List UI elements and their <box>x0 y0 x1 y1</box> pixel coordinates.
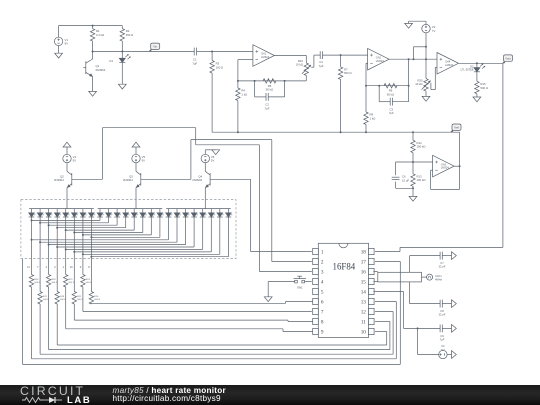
wire crystal bottom branch <box>409 282 411 304</box>
svg-text:12: 12 <box>361 309 367 315</box>
LED D25 segment diode <box>217 209 224 220</box>
LED D15 segment diode <box>131 209 138 220</box>
LED D22 segment diode <box>191 209 198 220</box>
svg-text:22 pF: 22 pF <box>439 265 446 269</box>
LED D3 segment diode <box>29 209 36 259</box>
resistor R1 2.2k <box>90 26 104 52</box>
wire anode bus digit3 <box>166 208 231 210</box>
transistor Q4 2N3904 with source V6 <box>192 154 250 199</box>
svg-text:10: 10 <box>70 265 73 269</box>
wire OA2 - input <box>366 63 368 85</box>
resistor R2 450 <box>120 26 133 52</box>
potentiometer R10 10k <box>296 59 311 81</box>
svg-text:OA1: OA1 <box>261 52 267 56</box>
svg-text:C8: C8 <box>440 309 444 313</box>
node D2 top <box>476 62 478 64</box>
svg-text:OA2: OA2 <box>376 55 382 59</box>
op-amp OA3 LM324 <box>433 155 455 177</box>
svg-text:500 Ω: 500 Ω <box>77 299 83 301</box>
svg-text:R17: R17 <box>43 296 48 298</box>
node OA3 out <box>459 165 461 167</box>
svg-text:CLK1: CLK1 <box>435 274 442 278</box>
resistor R8 1k <box>364 86 376 133</box>
wire crystal top branch <box>409 256 411 273</box>
resistor R5 50k <box>263 79 276 92</box>
svg-text:D2: D2 <box>470 64 474 68</box>
wire to OA2 + <box>341 54 368 56</box>
LED D13 segment diode <box>114 209 121 220</box>
wire segment row diode23 to column 7 <box>82 220 220 256</box>
svg-text:50 kΩ: 50 kΩ <box>266 88 273 92</box>
svg-text:5: 5 <box>321 289 324 295</box>
svg-text:LTL-307EE: LTL-307EE <box>461 68 474 72</box>
node R5 right <box>284 80 286 82</box>
wire segment row diode10 to column 2 <box>39 220 108 224</box>
voltage source V2 7V <box>422 21 436 78</box>
wire digit1 feed <box>66 200 68 209</box>
resistor R15 500 <box>475 81 488 97</box>
svg-text:R22: R22 <box>77 296 82 298</box>
svg-text:22 pF: 22 pF <box>439 313 446 317</box>
svg-text:10: 10 <box>361 329 367 335</box>
LED D17 segment diode <box>149 209 156 220</box>
wire feedback rail 2 <box>366 85 409 87</box>
svg-text:OA4: OA4 <box>445 60 451 64</box>
resistor R16 500 segment 1 <box>29 259 40 287</box>
CircuitLab logo <box>20 386 96 396</box>
svg-text:17: 17 <box>361 259 367 265</box>
capacitor C8 22pF <box>410 300 452 317</box>
wire anode bus digit1 <box>29 208 94 210</box>
LED D26 segment diode <box>226 209 233 220</box>
wire to OA3 + <box>413 161 433 163</box>
svg-text:2N3904: 2N3904 <box>54 178 64 182</box>
resistor R19 500 segment 4 <box>55 259 66 304</box>
svg-text:R19: R19 <box>60 296 65 298</box>
wire Vin row <box>93 51 195 53</box>
LED D8 segment diode <box>72 209 79 259</box>
LED D9 segment diode <box>80 209 87 259</box>
ground right of C9 <box>452 325 457 333</box>
svg-text:10 kΩ: 10 kΩ <box>296 63 303 67</box>
dashed display box <box>21 200 236 259</box>
wire OA2 output row <box>389 58 437 60</box>
LED D5 segment diode <box>46 209 53 259</box>
svg-text:R18: R18 <box>52 279 57 281</box>
svg-text:100 Ω: 100 Ω <box>216 66 224 70</box>
wire R13 to ground <box>412 188 414 196</box>
footer CircuitLab banner <box>0 385 540 405</box>
svg-text:SW1: SW1 <box>297 286 303 290</box>
crystal CLK1 4MHz body <box>373 272 442 282</box>
ground below D1 <box>118 84 126 89</box>
vcc arrow above V4 <box>63 142 71 154</box>
node R5 left <box>254 80 256 82</box>
resistor R4 1k <box>236 81 248 132</box>
resistor R24 500 segment 8 <box>89 259 100 304</box>
transistor Q1 2N3904 phototransistor <box>83 52 106 92</box>
display pin numbers <box>27 265 90 269</box>
ground at V6 <box>212 150 220 155</box>
svg-text:V3: V3 <box>441 344 445 348</box>
resistor R17 500 segment 2 <box>38 259 49 304</box>
wire feedback rail 1 <box>238 80 306 82</box>
svg-text:100 kΩ: 100 kΩ <box>417 178 426 182</box>
node supply junction <box>417 327 419 329</box>
svg-text:11: 11 <box>27 265 30 269</box>
svg-text:2: 2 <box>54 265 56 269</box>
node R12/R13 junction <box>412 161 414 163</box>
node jog left <box>413 58 415 60</box>
wire OA3 output <box>454 165 460 167</box>
LED D6 segment diode <box>54 209 61 259</box>
capacitor C4 7uF <box>319 51 341 68</box>
svg-text:Vref: Vref <box>454 125 459 129</box>
svg-text:8: 8 <box>321 319 324 325</box>
wire Q3 base route to pin2 <box>191 140 312 262</box>
svg-text:D1: D1 <box>109 59 113 63</box>
resistor R22 500 segment 6 <box>72 259 83 304</box>
wire display pin11 to chip pin17 <box>23 259 401 365</box>
resistor R23 500 segment 7 <box>81 259 92 287</box>
svg-text:LM324: LM324 <box>441 166 449 170</box>
svg-text:5V: 5V <box>142 159 146 163</box>
svg-text:18: 18 <box>361 249 367 255</box>
wire OA2 out to rail2 <box>408 59 410 85</box>
svg-text:LM324: LM324 <box>261 55 269 59</box>
node D1 top <box>121 51 123 53</box>
svg-text:9: 9 <box>321 329 324 335</box>
wire seg4 to pin10 <box>57 304 387 345</box>
node jog right <box>425 46 427 48</box>
svg-text:2N3904: 2N3904 <box>96 68 106 72</box>
op-amp OA4 LM324 <box>437 53 459 75</box>
ground below SW1 <box>264 297 272 302</box>
svg-text:450 Ω: 450 Ω <box>126 33 134 37</box>
svg-text:8: 8 <box>88 265 90 269</box>
node rail R12 <box>412 131 414 133</box>
credit text <box>113 387 226 403</box>
wire segment row diode14 to column 6 <box>73 220 143 234</box>
resistor R3 100 <box>210 52 223 133</box>
ground right of C8 <box>452 300 457 308</box>
LED D24 segment diode <box>209 209 216 220</box>
transistor Q2 2N3904 with source V4 <box>54 154 102 199</box>
pushbutton SW1 <box>268 276 306 289</box>
LED D14 segment diode <box>123 209 130 220</box>
ground below R20 <box>422 96 430 101</box>
svg-text:15: 15 <box>361 279 367 285</box>
wire Q4 base route to pin1 <box>251 179 312 251</box>
capacitor C1 7uF <box>192 48 212 66</box>
svg-text:500 Ω: 500 Ω <box>344 71 352 75</box>
net flag Vin <box>149 43 160 51</box>
node C4/R7 junction <box>340 54 342 56</box>
wire segment row diode13 to column 5 <box>65 220 135 232</box>
wire seg5 to pin9 <box>66 287 313 332</box>
svg-text:16F84: 16F84 <box>333 261 356 271</box>
svg-text:5V: 5V <box>441 348 444 352</box>
wire seg6 to pin8 <box>74 304 312 322</box>
svg-text:1: 1 <box>321 249 324 255</box>
wire digit2 feed <box>135 200 137 209</box>
svg-text:C7: C7 <box>440 261 444 265</box>
svg-text:2: 2 <box>321 259 324 265</box>
svg-text:7V: 7V <box>432 29 436 33</box>
IC U1 16F84 microcontroller <box>313 243 374 337</box>
ground right of C7 <box>452 252 457 260</box>
node rail2 right <box>408 85 410 87</box>
svg-text:3: 3 <box>321 269 324 275</box>
svg-text:7: 7 <box>321 309 324 315</box>
svg-text:10 kΩ: 10 kΩ <box>415 82 422 86</box>
svg-text:1 kΩ: 1 kΩ <box>241 93 247 97</box>
capacitor C6 10uF parallel loop <box>392 162 413 188</box>
wire digit3 feed <box>204 200 206 209</box>
wire segment row diode19 to column 3 <box>48 220 186 246</box>
LED D21 segment diode <box>183 209 190 220</box>
node R1 bottom <box>92 51 94 53</box>
op-amp OA2 LM324 <box>368 48 390 70</box>
svg-text:2.2 kΩ: 2.2 kΩ <box>96 33 104 37</box>
wire segment row diode16 to column 8 <box>90 220 159 239</box>
svg-text:500 Ω: 500 Ω <box>34 282 40 284</box>
svg-text:9V: 9V <box>65 42 69 46</box>
svg-text:C9: C9 <box>440 334 444 338</box>
svg-text:6: 6 <box>321 299 324 305</box>
svg-text:4MHz: 4MHz <box>435 278 443 282</box>
wire V6 top to ground <box>205 150 215 155</box>
svg-text:Vout: Vout <box>505 56 511 60</box>
LED D18 segment diode <box>157 209 164 220</box>
capacitor C3 7uF parallel loop <box>379 86 408 116</box>
svg-text:1 kΩ: 1 kΩ <box>370 116 376 120</box>
resistor R18 500 segment 3 <box>46 259 57 287</box>
LED D7 segment diode <box>63 209 70 259</box>
wire segment row diode9 to column 1 <box>31 219 101 221</box>
svg-text:10 µF: 10 µF <box>402 178 409 182</box>
wire jog over <box>414 47 427 59</box>
svg-text:500 Ω: 500 Ω <box>69 282 75 284</box>
node top rail junction <box>92 25 94 27</box>
wire seg8 to pin6 <box>91 302 312 305</box>
LED D19 segment diode <box>166 209 173 220</box>
wire segment row diode17 to column 1 <box>31 220 169 241</box>
svg-text:5V: 5V <box>73 159 77 163</box>
wire segment row diode20 to column 4 <box>56 220 194 248</box>
svg-text:Vin: Vin <box>153 45 157 49</box>
node rail2 left <box>365 85 367 87</box>
wire R20 wiper to OA4 - <box>431 67 437 89</box>
node V2 bottom <box>425 58 427 60</box>
capacitor C7 22pF <box>410 252 452 269</box>
node OA2 out fb <box>408 58 410 60</box>
svg-text:4: 4 <box>321 279 324 285</box>
svg-text:7µF: 7µF <box>319 64 324 68</box>
node R13 bottom <box>412 187 414 189</box>
LED D2 LTL-307EE <box>461 63 486 81</box>
wire SW1 to ground <box>267 282 269 297</box>
LED D1 <box>109 52 130 85</box>
svg-text:14: 14 <box>361 289 367 295</box>
svg-text:2N3904: 2N3904 <box>123 178 133 182</box>
node C1/R3 junction <box>211 51 213 53</box>
svg-text:7µF: 7µF <box>192 61 197 65</box>
svg-text:13: 13 <box>361 299 367 305</box>
wire Vout to pin18 <box>375 63 503 251</box>
wire supply to V3 <box>418 328 439 354</box>
wire Q2 base route to pin3 <box>102 128 311 272</box>
ground below R13 <box>409 196 417 201</box>
svg-text:R24: R24 <box>94 296 99 298</box>
resistor R13 100k <box>411 162 426 188</box>
svg-text:LM324: LM324 <box>445 63 453 67</box>
capacitor C2 7uF parallel loop <box>255 81 285 111</box>
wire seg3 to pin11 <box>49 287 390 350</box>
wire rail to OA3 out <box>459 132 461 166</box>
LED D23 segment diode <box>200 209 207 220</box>
potentiometer R20 10k <box>415 78 430 96</box>
wire V2 top to ground <box>409 21 426 23</box>
node rail R8 <box>365 131 367 133</box>
svg-text:4: 4 <box>46 265 48 269</box>
svg-text:1: 1 <box>63 265 65 269</box>
svg-text:7µF: 7µF <box>265 106 270 110</box>
wire seg1 to pin13 <box>32 287 397 359</box>
svg-text:LM324: LM324 <box>376 59 384 63</box>
net flag Vref <box>451 124 461 132</box>
vcc arrow above V5 <box>132 142 140 154</box>
node rail2 c3left <box>378 85 380 87</box>
wire top rail <box>59 25 123 27</box>
svg-text:R21: R21 <box>69 279 74 281</box>
capacitor C9 7uF <box>440 325 452 342</box>
wire pin14 to supply <box>373 292 440 329</box>
wire OA4 output <box>459 62 503 64</box>
ground below R15 <box>473 97 481 102</box>
LED D12 segment diode <box>106 209 113 220</box>
resistor R7 500 <box>338 55 351 132</box>
svg-text:100 kΩ: 100 kΩ <box>417 145 426 149</box>
wire segment row diode18 to column 2 <box>39 220 177 244</box>
ground right of V3 <box>452 351 457 359</box>
svg-text:500 Ω: 500 Ω <box>94 299 100 301</box>
wire segment row diode21 to column 5 <box>65 220 203 251</box>
svg-text:500 Ω: 500 Ω <box>480 86 488 90</box>
ground at V2 <box>405 23 413 28</box>
LED D4 segment diode <box>37 209 44 259</box>
node rail1 left <box>237 80 239 82</box>
resistor R12 100k <box>411 132 426 162</box>
ground below V1 <box>55 53 63 58</box>
svg-text:OA3: OA3 <box>441 162 447 166</box>
wire segment row diode12 to column 4 <box>56 220 126 229</box>
wire OA1 output <box>274 55 306 63</box>
node rail R7 <box>340 131 342 133</box>
wire segment row diode11 to column 3 <box>48 220 118 227</box>
wire anode bus digit2 <box>98 208 163 210</box>
svg-text:50 kΩ: 50 kΩ <box>387 92 394 96</box>
wire seg7 to pin7 <box>83 287 312 312</box>
LED D16 segment diode <box>140 209 147 220</box>
resistor R21 500 segment 5 <box>64 259 75 287</box>
svg-text:500 Ω: 500 Ω <box>52 282 58 284</box>
wire segment row diode15 to column 7 <box>82 220 151 236</box>
wire pin4 to SW1 <box>303 281 312 283</box>
svg-text:7: 7 <box>37 265 39 269</box>
LED D11 segment diode <box>97 209 104 220</box>
voltage source V3 5V <box>439 344 452 358</box>
wire R10 wiper to C4 <box>311 55 320 67</box>
node rail R4 <box>237 131 239 133</box>
voltage source V1 9V <box>54 26 68 54</box>
transistor Q3 2N3904 with source V5 <box>123 154 191 199</box>
svg-text:11: 11 <box>361 319 366 325</box>
svg-text:2N3904: 2N3904 <box>192 178 202 182</box>
op-amp OA1 LM324 <box>253 45 275 67</box>
LED D20 segment diode <box>174 209 181 220</box>
svg-text:R23: R23 <box>86 279 91 281</box>
svg-text:16: 16 <box>361 269 367 275</box>
wire to OA1 + <box>212 51 253 53</box>
resistor R6 50k <box>384 84 397 97</box>
wire Vref rail <box>212 131 460 133</box>
wire OA1 - input <box>238 60 253 81</box>
svg-text:9: 9 <box>80 265 82 269</box>
svg-text:7µF: 7µF <box>440 337 445 341</box>
wire seg2 to pin12 <box>40 304 393 354</box>
wire OA3 feedback loop <box>431 166 460 189</box>
svg-text:R16: R16 <box>34 279 39 281</box>
LED D10 segment diode <box>89 209 96 259</box>
wire segment row diode24 to column 8 <box>90 220 228 258</box>
svg-text:7µF: 7µF <box>389 111 394 115</box>
net flag Vout <box>503 55 513 63</box>
svg-text:5V: 5V <box>211 159 215 163</box>
wire segment row diode22 to column 6 <box>73 220 211 253</box>
ground below Q1 <box>89 91 97 96</box>
